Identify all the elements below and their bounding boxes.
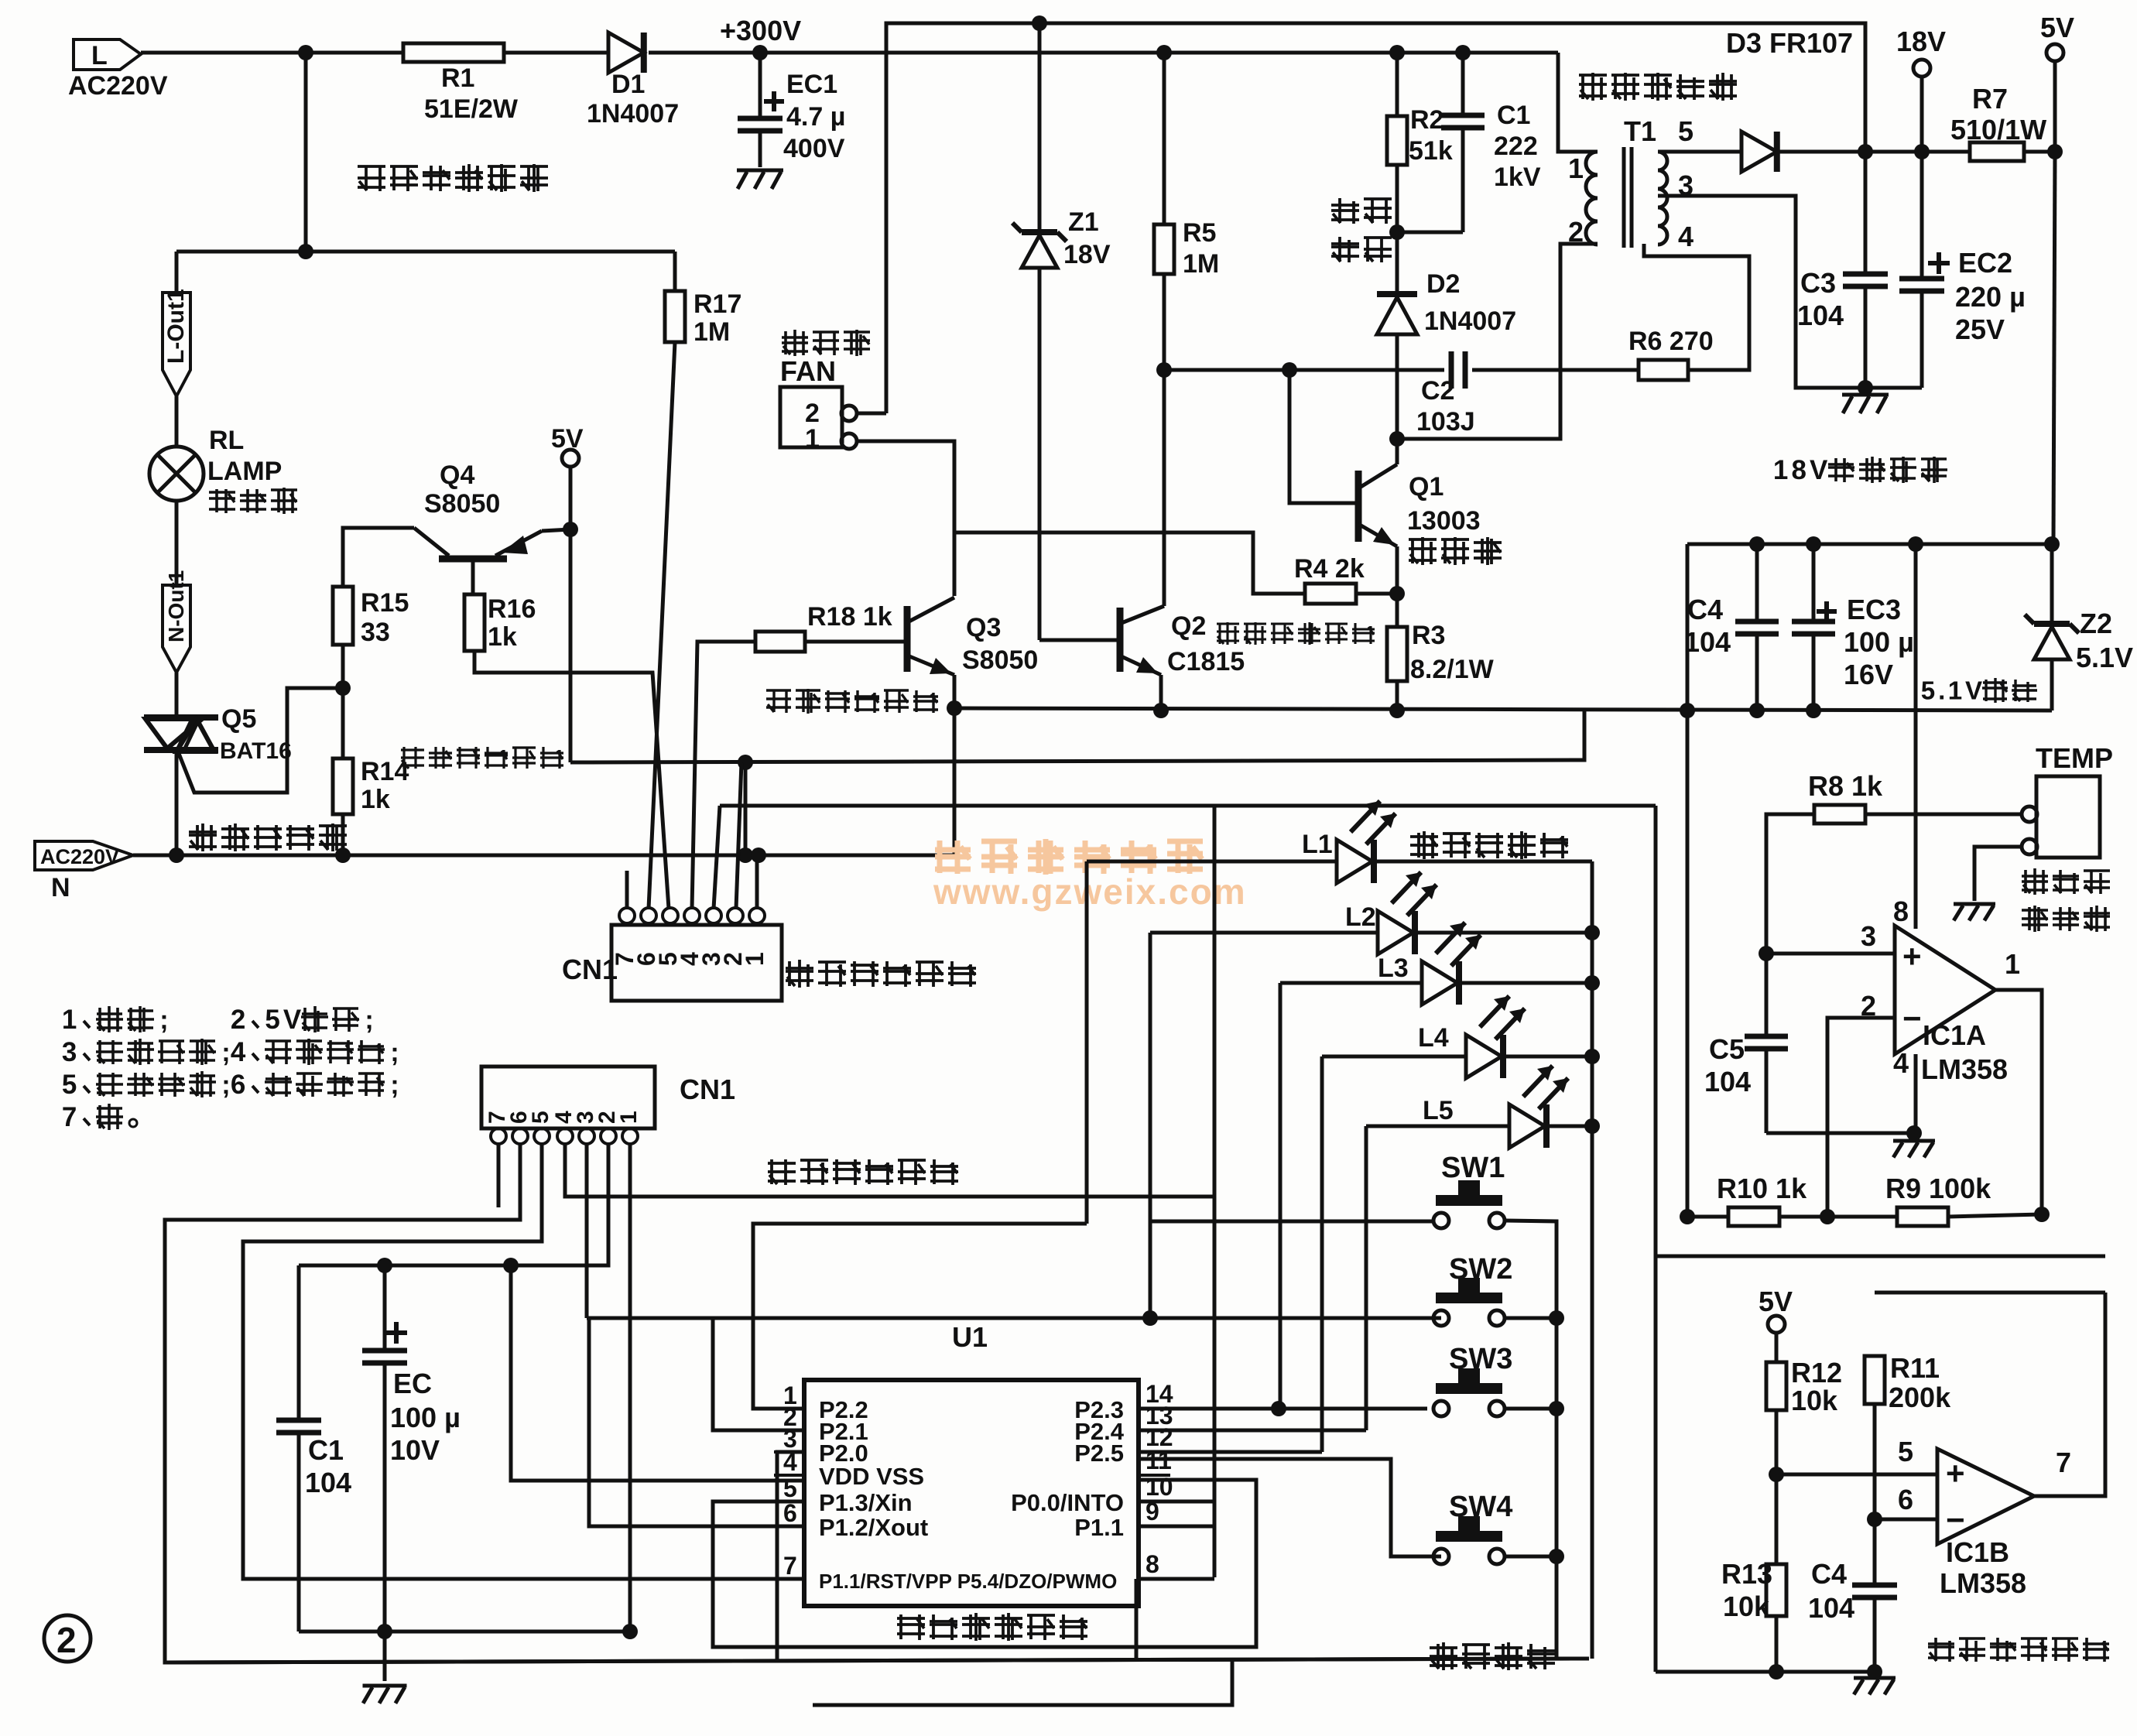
label heater-plate xyxy=(209,491,235,494)
transistor Q4 S8050 xyxy=(439,556,507,563)
ground temp circuit xyxy=(1854,1676,1896,1680)
wire cn1p pin7 stub xyxy=(497,1144,501,1207)
svg-text:7: 7 xyxy=(783,1552,797,1580)
node R10 left xyxy=(1680,1209,1695,1224)
svg-text:AC220V: AC220V xyxy=(68,71,168,101)
svg-text:L5: L5 xyxy=(1423,1096,1454,1125)
svg-text:www.gzweix.com: www.gzweix.com xyxy=(933,871,1247,912)
wire in- ic1a xyxy=(1827,1018,1895,1217)
node ec3 top xyxy=(1806,536,1821,552)
wire u1 pin6 route xyxy=(589,1318,804,1526)
svg-text:4: 4 xyxy=(231,1037,246,1067)
svg-text:C5: C5 xyxy=(1709,1033,1745,1065)
wire bottom gnd rail xyxy=(1656,1670,1875,1674)
node pin1 gnd xyxy=(622,1624,638,1639)
ground below EC1 xyxy=(737,169,783,173)
svg-text:1: 1 xyxy=(805,424,820,454)
node pin4 gnd xyxy=(1906,1125,1922,1141)
wire T1 pin3 loop xyxy=(1658,196,1922,388)
svg-text:L2: L2 xyxy=(1345,902,1376,932)
wire cn1p pin6 route xyxy=(165,1144,1589,1662)
wire bottom long rail xyxy=(165,1659,1589,1662)
wire sw bus xyxy=(1555,1221,1559,1556)
wire R17 down to CN pin6 xyxy=(649,342,675,909)
connector N-Out1 xyxy=(163,585,190,673)
pin fan-2 xyxy=(841,406,857,421)
capacitor C2 103J xyxy=(1449,351,1454,389)
wire u1 pin13 line xyxy=(1139,1429,1366,1433)
node R7/5V xyxy=(2047,144,2063,159)
node N-CN1 pin1 xyxy=(751,847,766,863)
wire rail drop to R10 xyxy=(1686,544,1690,1217)
wire R4 left xyxy=(954,532,1305,594)
label switch-tube xyxy=(1409,538,1437,541)
node bus L3 xyxy=(1584,975,1600,991)
svg-text:R16: R16 xyxy=(488,594,536,624)
wire bottom aux line xyxy=(813,1660,1232,1705)
wire D2 to T1 pin2 riser xyxy=(1397,244,1598,439)
wire N rail xyxy=(133,854,954,858)
svg-text:1: 1 xyxy=(1773,455,1788,485)
wire R10-R9 xyxy=(1779,1215,1897,1219)
svg-text:L1: L1 xyxy=(1302,830,1333,859)
pin CN1-panel 3 xyxy=(579,1128,594,1144)
svg-text:R2: R2 xyxy=(1410,105,1444,135)
resistor R12 10k xyxy=(1766,1362,1786,1410)
wire R2 bottom xyxy=(1396,165,1399,232)
svg-text:EC2: EC2 xyxy=(1958,247,2012,279)
svg-text:4: 4 xyxy=(1893,1047,1909,1079)
wire T1 pin5 to D3 xyxy=(1658,150,1741,154)
terminal 5V near Q4 xyxy=(562,450,579,467)
svg-text:100 µ: 100 µ xyxy=(1844,626,1914,658)
node Q3 emitter rail xyxy=(947,700,962,716)
wire N-Out1 to triac xyxy=(175,673,179,717)
resistor R18 1k xyxy=(755,632,805,652)
wire C2 line left xyxy=(1164,368,1444,372)
connector L (AC220V live input) xyxy=(74,39,141,70)
watermark line1 xyxy=(935,847,971,853)
svg-text:SW1: SW1 xyxy=(1441,1152,1505,1184)
node gate/R15/R14 junction xyxy=(335,680,351,696)
svg-text:R13: R13 xyxy=(1721,1558,1772,1590)
node D2 bottom xyxy=(1389,431,1405,447)
resistor R8 1k xyxy=(1814,805,1865,823)
svg-text:;: ; xyxy=(365,1005,373,1035)
svg-text:V: V xyxy=(1965,677,1982,706)
wire triac gate xyxy=(178,688,343,793)
connector AC220V N xyxy=(35,841,133,870)
svg-text:IC1B: IC1B xyxy=(1946,1536,2009,1568)
wire panel box top xyxy=(720,804,1656,808)
wire 18V stub xyxy=(1920,77,1924,152)
wire R4 right xyxy=(1356,592,1397,596)
svg-text:100 µ: 100 µ xyxy=(390,1402,461,1433)
wire R15 to junction xyxy=(341,645,345,688)
svg-text:R4 2k: R4 2k xyxy=(1294,554,1365,584)
wire u1 pin10 line xyxy=(1139,1500,1214,1504)
wire Q1 emitter xyxy=(1396,546,1399,627)
svg-text:R5: R5 xyxy=(1183,218,1216,248)
svg-text:LM358: LM358 xyxy=(1921,1053,2008,1085)
svg-text:U1: U1 xyxy=(952,1321,988,1353)
node ic1a-8 top xyxy=(1908,536,1923,552)
svg-text:TEMP: TEMP xyxy=(2036,742,2113,774)
node sw4 bus xyxy=(1549,1549,1564,1564)
svg-text:Q5: Q5 xyxy=(221,704,256,734)
node N-5Vrail drop xyxy=(738,847,753,863)
label keys xyxy=(1430,1646,1457,1649)
label smps xyxy=(1217,622,1239,625)
capacitor EC 100u/10V xyxy=(383,1265,387,1351)
svg-text:13003: 13003 xyxy=(1407,506,1481,536)
svg-text:BAT16: BAT16 xyxy=(220,738,292,764)
svg-text:P0.0/INTO: P0.0/INTO xyxy=(1011,1489,1124,1516)
svg-text:R17: R17 xyxy=(693,289,741,319)
wire Q1 collector xyxy=(1396,439,1399,464)
node Q1 base tap xyxy=(1282,362,1297,378)
svg-text:IC1A: IC1A xyxy=(1923,1019,1986,1051)
wire R15 top xyxy=(343,528,414,587)
svg-text:L4: L4 xyxy=(1418,1023,1449,1053)
connector FAN socket xyxy=(780,387,842,447)
node 5V rail to N drop xyxy=(738,755,753,770)
wire drop 5Vrail to N xyxy=(744,762,748,855)
pin CN1-main 1 xyxy=(749,908,765,923)
switch SW4 xyxy=(1458,1516,1480,1532)
node rail C4 xyxy=(1749,703,1765,718)
wire key column vert xyxy=(1213,806,1217,1577)
svg-text:104: 104 xyxy=(1797,300,1844,331)
pin CN1-main 3 xyxy=(706,908,721,923)
diode D1 1N4007 xyxy=(608,33,644,73)
op-amp IC1B xyxy=(1937,1449,2034,1544)
transformer T1 core xyxy=(1622,147,1626,248)
node bus L4 xyxy=(1584,1049,1600,1064)
wire u1 pin3 route xyxy=(777,1452,804,1662)
wire LED cathode bus xyxy=(1591,861,1594,1659)
svg-text:33: 33 xyxy=(361,618,390,647)
wire R9 right xyxy=(1948,1214,2042,1217)
resistor R6 270 xyxy=(1639,360,1688,380)
svg-text:5: 5 xyxy=(1921,677,1935,706)
svg-text:RL: RL xyxy=(209,426,244,455)
svg-text:D2: D2 xyxy=(1426,269,1460,299)
node Q4 emitter 5V xyxy=(563,522,578,537)
node L-out row junction xyxy=(298,244,313,259)
wire primary common rail xyxy=(954,708,2052,710)
wire 5V vertical xyxy=(569,467,573,762)
svg-text:1: 1 xyxy=(2005,948,2020,980)
diode D3 FR107 xyxy=(1741,132,1777,172)
svg-text:104: 104 xyxy=(305,1467,351,1498)
svg-text:Z2: Z2 xyxy=(2080,608,2112,639)
node r12/r13/in+ xyxy=(1769,1467,1784,1482)
node rail R3 xyxy=(1389,703,1405,718)
svg-text:Z1: Z1 xyxy=(1068,207,1099,237)
svg-text:10k: 10k xyxy=(1723,1590,1770,1622)
wire R14 bottom xyxy=(341,814,345,855)
wire R5 bottom to Q2 collector xyxy=(1163,274,1166,606)
pin CN1-main 5 xyxy=(663,908,678,923)
wire R16 bottom to CN pin5 xyxy=(474,651,669,909)
wire sw2 right xyxy=(1505,1317,1557,1320)
pin CN1-panel 4 xyxy=(557,1128,573,1144)
svg-text:P1.2/Xout: P1.2/Xout xyxy=(819,1514,928,1541)
svg-text:2: 2 xyxy=(57,1620,77,1660)
wire D1 to +300V rail corner xyxy=(649,51,1558,55)
svg-text:1: 1 xyxy=(741,952,769,966)
svg-text:S8050: S8050 xyxy=(424,489,500,519)
connector L-Out1 xyxy=(163,293,190,396)
svg-text:EC1: EC1 xyxy=(786,70,837,99)
wire sw bus bottom xyxy=(1555,1556,1559,1659)
transistor Q1 13003 xyxy=(1355,471,1362,542)
svg-text:51k: 51k xyxy=(1409,136,1453,166)
svg-text:C3: C3 xyxy=(1800,267,1836,299)
node Q1e/R4 xyxy=(1389,586,1405,601)
wire cn1main pin7 stub xyxy=(625,871,629,908)
svg-text:S8050: S8050 xyxy=(962,645,1038,675)
svg-text:5: 5 xyxy=(783,1474,797,1502)
svg-text:L3: L3 xyxy=(1378,954,1409,983)
terminal 5V right xyxy=(2046,44,2063,61)
svg-text:7: 7 xyxy=(62,1102,77,1132)
wire u1 pin5 route xyxy=(713,1480,1256,1647)
wire gnd line panel xyxy=(299,1630,630,1634)
wire u1 pin9 line xyxy=(1139,1525,1214,1529)
switch SW3 xyxy=(1458,1368,1480,1385)
svg-text:VDD VSS: VDD VSS xyxy=(819,1463,924,1490)
wire 5V rail right xyxy=(570,710,1584,762)
wire Q4 collector to R16 xyxy=(471,559,475,594)
wire key line y1703 xyxy=(587,1317,1427,1320)
resistor R2 51k xyxy=(1387,116,1407,165)
svg-text:5: 5 xyxy=(1678,115,1694,147)
svg-text:D3 FR107: D3 FR107 xyxy=(1726,27,1853,59)
svg-text:R6 270: R6 270 xyxy=(1628,327,1714,356)
capacitor C4b 104 xyxy=(1873,1580,1877,1585)
svg-text:8: 8 xyxy=(1791,455,1806,485)
svg-text:P1.1: P1.1 xyxy=(1074,1514,1124,1541)
svg-text:3: 3 xyxy=(62,1037,77,1067)
ground TEMP xyxy=(1954,902,1995,906)
wire in+ ic1b xyxy=(1776,1473,1937,1477)
svg-text:R9 100k: R9 100k xyxy=(1885,1173,1991,1204)
ground panel xyxy=(363,1684,407,1688)
svg-text:C4: C4 xyxy=(1811,1558,1847,1590)
op-amp IC1A xyxy=(1895,926,1995,1054)
svg-text:;: ; xyxy=(221,1038,230,1067)
wire L3 riser xyxy=(1279,983,1283,1409)
svg-text:1: 1 xyxy=(616,1111,642,1124)
wire cn1p pin2 route xyxy=(299,1144,608,1265)
svg-text:8: 8 xyxy=(1893,895,1909,927)
svg-text:V: V xyxy=(1810,455,1828,485)
wire sw2 left stub xyxy=(1427,1317,1441,1320)
label mainboard-circ xyxy=(786,967,813,970)
wire Q1 base feed xyxy=(1289,370,1355,503)
svg-text:CN1: CN1 xyxy=(680,1073,735,1105)
pin CN1-main 4 xyxy=(684,908,700,923)
svg-text:Q3: Q3 xyxy=(966,613,1001,642)
capacitor EC3 100u/16V xyxy=(1812,544,1816,621)
svg-text:18V: 18V xyxy=(1063,240,1111,269)
node ec gnd xyxy=(377,1624,392,1639)
wire r12 top xyxy=(1775,1333,1779,1362)
switch SW2 xyxy=(1458,1278,1480,1294)
wire R8 right to TEMP xyxy=(1865,813,2022,817)
svg-text:510/1W: 510/1W xyxy=(1950,114,2046,146)
node R9 right xyxy=(2034,1207,2050,1222)
svg-text:200k: 200k xyxy=(1889,1382,1951,1413)
resistor R17 1M xyxy=(665,291,685,342)
svg-text:C2: C2 xyxy=(1421,376,1454,406)
wire R7 to 5V xyxy=(2024,150,2055,154)
svg-text:103J: 103J xyxy=(1416,407,1475,437)
svg-text:P2.5: P2.5 xyxy=(1074,1440,1124,1467)
wire cn1p pin3 route xyxy=(585,1144,589,1318)
wire R1 to D1 xyxy=(504,51,608,55)
svg-text:;: ; xyxy=(390,1038,399,1067)
svg-text:+300V: +300V xyxy=(720,15,801,46)
wire r11 top link xyxy=(1875,1291,2105,1295)
triac Q5 BAT16 xyxy=(144,714,218,721)
wire L-out row xyxy=(176,250,675,254)
wire IC1A pin8 xyxy=(1914,544,1918,929)
node rail Q2e xyxy=(1153,703,1169,718)
svg-text:5: 5 xyxy=(1898,1436,1913,1467)
svg-text:1k: 1k xyxy=(488,622,517,652)
svg-text:6: 6 xyxy=(231,1070,245,1100)
svg-text:222: 222 xyxy=(1494,132,1538,161)
wire sw4 right xyxy=(1505,1555,1557,1559)
node 5v dist EC xyxy=(377,1258,392,1273)
wire R8 left drop xyxy=(1766,814,1814,954)
capacitor C1 222 1kV xyxy=(1461,53,1465,115)
transformer T1 secondary winding xyxy=(1658,152,1667,170)
svg-text:2: 2 xyxy=(1568,216,1584,248)
wire ic1a out xyxy=(1995,990,2042,1214)
label temp-sensor-2 xyxy=(2022,909,2048,912)
resistor R5 1M xyxy=(1154,224,1174,274)
pin CN1-main 6 xyxy=(641,908,656,923)
svg-text:5: 5 xyxy=(265,1005,279,1035)
svg-text:5.1V: 5.1V xyxy=(2076,642,2133,673)
svg-text:10k: 10k xyxy=(1791,1385,1838,1416)
node rail R10drop xyxy=(1680,703,1695,718)
svg-text:R11: R11 xyxy=(1890,1352,1940,1384)
resistor R16 1k xyxy=(464,594,485,651)
terminal 5V r12 xyxy=(1768,1316,1785,1333)
svg-text:8.2/1W: 8.2/1W xyxy=(1410,655,1495,684)
resistor R3 8.2/1W xyxy=(1387,627,1407,681)
node 5v dist VDD riser xyxy=(503,1258,519,1273)
transformer T1 primary winding xyxy=(1586,152,1598,175)
svg-text:1M: 1M xyxy=(1183,249,1219,279)
label power-leds xyxy=(1410,835,1438,838)
LED L4 xyxy=(1322,1055,1466,1059)
svg-text:R3: R3 xyxy=(1412,621,1445,650)
svg-text:+: + xyxy=(1946,1455,1965,1491)
svg-text:400V: 400V xyxy=(783,134,845,163)
svg-text:104: 104 xyxy=(1684,626,1731,658)
svg-text:−: − xyxy=(1902,1000,1922,1036)
node rail R2 tap xyxy=(1389,45,1405,60)
wire ic1b out xyxy=(2034,1293,2105,1496)
node key1703 xyxy=(1142,1310,1158,1326)
ground ic1a xyxy=(1893,1139,1935,1143)
node L rail junction xyxy=(298,45,313,60)
wire Q2 base xyxy=(1039,639,1117,642)
svg-text:1: 1 xyxy=(1948,677,1962,706)
wire ic1b-out bus xyxy=(1656,1255,2105,1258)
wire cn1main pin3 up xyxy=(714,806,720,909)
wire fan1 to Q3 collector xyxy=(857,441,954,596)
svg-text:T1: T1 xyxy=(1624,115,1656,147)
wire cn1main pin1 up xyxy=(755,855,759,908)
wire R17 top xyxy=(673,252,677,291)
node c4b gnd xyxy=(1867,1664,1882,1680)
svg-text:R10 1k: R10 1k xyxy=(1717,1173,1807,1204)
wire R14 top xyxy=(341,688,345,758)
svg-text:;: ; xyxy=(390,1070,399,1100)
wire R6 right loop to pin4 xyxy=(1644,244,1749,370)
wire pin8 drop xyxy=(1135,1579,1139,1659)
svg-text:7: 7 xyxy=(2056,1447,2071,1478)
wire drop rail to CN pin2 xyxy=(736,762,741,909)
node c4 top xyxy=(1749,536,1765,552)
svg-text:104: 104 xyxy=(1808,1592,1854,1624)
wire sw1 right xyxy=(1505,1221,1557,1318)
svg-text:R18 1k: R18 1k xyxy=(807,602,892,632)
wire L5 riser xyxy=(1365,1126,1368,1430)
svg-text:D1: D1 xyxy=(611,70,645,99)
wire cn1p pin4 route xyxy=(565,1144,1214,1197)
pin CN1-panel 7 xyxy=(491,1128,506,1144)
svg-text:104: 104 xyxy=(1704,1066,1751,1097)
wire R18 left to CN pin4 xyxy=(692,642,755,909)
wire u1 pin12 line xyxy=(1139,1450,1322,1454)
resistor R7 510/1W xyxy=(1970,142,2024,161)
svg-text:25V: 25V xyxy=(1955,313,2005,345)
svg-text:1N4007: 1N4007 xyxy=(587,99,679,128)
LED L1 xyxy=(1087,860,1337,864)
svg-text:C4: C4 xyxy=(1687,594,1723,625)
resistor R13 10k xyxy=(1766,1564,1786,1616)
pin CN1-main 7 xyxy=(619,908,635,923)
connector CN1 main board xyxy=(611,925,782,1001)
wire junction down to L-Out1 row xyxy=(304,53,308,252)
wire r12 bottom xyxy=(1775,1410,1779,1474)
wire panel box left vert xyxy=(1654,806,1658,1672)
wire 5V dist rail xyxy=(1687,543,2053,546)
wire top rail from +300V riser to right corner xyxy=(886,23,1865,152)
resistor R14 1k xyxy=(333,758,353,814)
svg-text:1kV: 1kV xyxy=(1494,163,1541,192)
node N-triac xyxy=(169,847,184,863)
lamp RL heater plate xyxy=(149,447,204,501)
capacitor C4 104 xyxy=(1755,544,1759,621)
capacitor C1 104 panel xyxy=(297,1265,301,1420)
pin CN1-main 2 xyxy=(728,908,743,923)
svg-text:Q2: Q2 xyxy=(1171,611,1206,641)
switch SW1 xyxy=(1458,1180,1480,1197)
node L3/sw3 xyxy=(1271,1401,1286,1416)
svg-text:51E/2W: 51E/2W xyxy=(424,94,519,124)
svg-text:4.7 µ: 4.7 µ xyxy=(786,102,845,132)
LED L5 xyxy=(1366,1125,1509,1128)
